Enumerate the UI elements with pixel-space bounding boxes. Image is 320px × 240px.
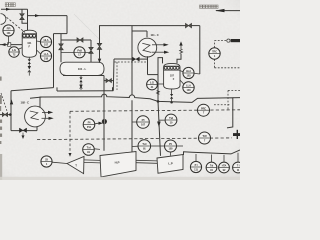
svg-text:H.P: H.P [115,160,120,164]
turbine drive triangle [67,156,84,173]
vessel 107-F shell [164,63,180,89]
wire: TxI stub [94,148,100,151]
instrument bubble TxI-91 [83,144,95,156]
junction dot on header x158 [157,100,160,103]
svg-text:TxI: TxI [210,165,214,168]
svg-text:HLA: HLA [186,70,191,73]
svg-text:TxI: TxI [86,146,90,150]
wire: jog y33.5 [54,33,68,35]
vessel 101-F drain arrow [28,64,30,66]
svg-text:107: 107 [141,122,146,126]
signal: dashed corridor top y110.8 [70,110,240,112]
wire: drop x104 [103,76,105,151]
signal arrow into instrument [95,122,99,125]
outlet arrow (to flare) [1,43,6,46]
flow arrow on y15.5 line [35,14,40,17]
vessel 101-F demister dots [22,34,36,38]
flow arrow up on x11 [10,99,13,104]
svg-text:192 - C: 192 - C [21,101,30,105]
wire: 192-C inlet bottom [36,126,38,130]
wire: exhaust manifold [192,150,240,154]
wire: SI link [52,162,67,163]
valve on x91 [89,47,93,53]
blower discharge arrow 1 [42,111,48,113]
wire: LLA-518 link [37,50,41,54]
instrument bubble TxI-91b [206,162,217,173]
instrument bubble TR-7 [199,132,211,144]
svg-text:105: 105 [168,146,173,150]
drum drain arrow [80,82,82,84]
svg-text:P I: P I [195,164,198,167]
vessel 107-F drain valve [170,94,173,99]
valve on side tap [2,113,7,117]
wire: row bubble link [151,145,165,147]
wire: manifold stub 3 [223,155,225,162]
signal: dashed diagonal to vessel [4,15,25,33]
flow arrow down x159 [157,122,161,128]
wire: drum bottom line y75.5 [63,75,104,77]
wire: drop x91 to drum [90,40,92,62]
scan edge artifacts [0,77,2,145]
wire: manifold stub 1 [195,154,197,162]
svg-text:111: 111 [194,167,198,171]
instrument bubble FR-101 [3,25,14,36]
wire: level line y91 [57,90,113,92]
signal: TRC to valve [214,41,216,48]
wire: long drop x53.5 [53,34,55,88]
shaft: HP to LP [136,159,157,162]
svg-text:100: 100 [186,88,191,92]
vessel 101-F drain valve [28,59,31,64]
orifice plate on outlet [8,43,11,47]
instrument bubble LLA-518 [40,50,51,61]
control valve actuator (top right) [227,39,230,42]
blower discharge arrow 2 [42,117,49,119]
control valve body (top right) [231,39,240,42]
wire: branch line y15.5 to x67 [28,15,68,17]
valve on y80.5 [106,79,111,83]
instrument bubble PRC-7 [198,104,210,116]
wire: stub to TxI row [132,145,138,147]
svg-text:LLA: LLA [186,85,191,88]
wire: drop x11 [10,91,12,131]
wire: elbow y74.5 [148,74,159,76]
wire: drop x132 from main line [131,26,133,31]
blower 192-C circle [25,106,46,127]
instrument bubble PdI-17 [74,47,85,58]
wire: stub to PI-107 [132,121,137,123]
instrument bubble HTA-92 [219,162,230,173]
wire: manifold stub 4 [237,153,239,162]
svg-text:PI: PI [88,121,91,125]
enclosure: box edge x113.5 [112,59,115,91]
signal: dashed y90.4 [228,89,240,91]
wire: long drop x132 [131,26,133,96]
svg-text:L.P: L.P [168,162,172,166]
vessel 101-F tag [27,41,32,49]
fold artifact [74,14,100,40]
valve with stem on y130.5 [19,128,26,133]
signal: dashed corridor bottom y139 [37,138,232,140]
wire: valve branch at x22 [22,9,28,23]
wire: LP exhaust riser [184,152,193,155]
instrument bubble TxI-row-A [138,140,151,153]
wire: riser x158 to vessel top [158,58,163,75]
wire: link x200 to HLA bubble [195,72,200,75]
instrument bubble TxI-10 [165,114,177,126]
enclosure: box top y59 [114,58,132,60]
valve on x61 [59,44,63,50]
instrument bubble PI-P11 [83,119,95,131]
wire: stub x57 [56,87,58,91]
instrument bubble PI-row-B [165,140,177,152]
turbine LP casing [157,155,183,174]
relief line with spring [177,54,181,64]
instrument bubble LG-72 [9,47,19,57]
wire: header tee to right edge [233,97,240,99]
svg-text:HTA: HTA [222,165,227,168]
valve marks on x158 [157,91,160,95]
label: to recovery (CJK) [200,5,219,8]
svg-text:101 - L: 101 - L [78,67,87,71]
instrument bubble SI-1 [41,156,52,167]
drum 101-L shell [60,62,104,75]
svg-text:PI: PI [142,118,145,122]
wire: FR stem [8,36,10,45]
drum drain valve [79,77,82,82]
compressor 111-C internals [142,43,151,52]
wire: feed y31 to 111-C [132,30,147,32]
arrow into drum end [98,59,101,63]
instrument bubble HLA-517 [40,36,51,47]
wire: HLA-517 link [37,40,41,43]
svg-text:PRC: PRC [201,107,206,110]
vessel 107-F drain to header [171,99,173,102]
wire: x158 down leg [157,75,159,102]
valve on y59 [132,57,139,61]
signal: dashed governor drop x70 [69,111,71,153]
svg-text:111 - C: 111 - C [151,33,159,37]
instrument bubble PI-111 [190,161,201,172]
signal: dashed x116 [116,62,118,90]
wire: side tap y114.5 [0,114,10,116]
export arrow [215,9,225,12]
vessel 107-F demister dots [164,66,180,70]
signal: TRC down [214,59,216,68]
inline instrument on x104 [102,119,107,124]
wire: sloped return line [11,88,54,91]
signal: dashed PRC to valve [214,104,230,106]
svg-text:HLA: HLA [44,39,49,42]
instrument bubble FI (edge) [1,14,6,25]
relief arrow up [179,41,182,45]
wire: LG link [18,48,22,50]
svg-text:TxI: TxI [142,142,146,146]
junction dot [9,113,12,116]
valve on main line [186,23,192,27]
wire: LLA-100 link [180,80,184,84]
svg-text:SI: SI [45,158,48,162]
turbine HP casing [100,152,136,178]
wire: drop x200 to HLA [199,26,201,74]
svg-text:P11: P11 [87,125,92,129]
wire: drop x99.5 to drum end [99,26,101,59]
wire: export line [216,10,240,12]
label: fuel gas (CJK) [5,3,15,7]
svg-text:LLA: LLA [44,53,49,56]
wire: main line y25.5 [99,25,186,27]
svg-text:101: 101 [6,31,11,35]
signal: dashed diagonal to side valve [1,93,7,111]
valve on x99.5 [97,43,101,49]
wire: y59 to 111-C drop [139,58,148,60]
wire: fuel gas inlet line [1,8,28,10]
wire: 192-C top riser [40,97,42,107]
svg-text:PdI: PdI [77,48,82,52]
wire: riser x27.5 into vessel 101-F [27,9,29,30]
wire: 111-C suction drop [147,56,149,74]
instrument bubble HLA-103 [183,67,194,78]
wire: drop x61 to drum [60,34,62,63]
flow arrow on fuel gas line [6,8,11,11]
wire: LG-41 link [157,83,163,85]
valve on branch x22 [20,14,24,20]
wire: TxI-10 stub [159,119,166,121]
svg-text:101: 101 [27,41,32,45]
svg-text:103: 103 [186,73,191,77]
wire: long header to right [30,94,233,128]
wire: bottom y130.5 [11,130,37,132]
compressor discharge arrow 1 [152,44,164,46]
valve line y80.5 [104,80,114,82]
wire: bypass top y40 [61,39,91,41]
shaft: triangle to HP [84,159,100,162]
instrument bubble PI-107 [137,116,150,129]
wire: manifold stub 2 [211,155,213,163]
instrument bubble LLA-100 [183,82,194,93]
svg-text:TxI: TxI [169,116,173,120]
valve on bypass y40 [77,38,83,42]
control valve body (bottom right) [233,133,240,136]
svg-text:TRC: TRC [212,51,217,54]
svg-text:PI: PI [169,142,172,146]
vessel 107-F tag [170,74,175,80]
instrument bubble TRC-1 [209,48,220,59]
instrument bubble TI-11 [233,162,244,173]
wire: header x158 continues down [158,101,161,155]
signal: dashed y62 [115,61,147,63]
svg-text:T I: T I [237,165,240,168]
wire: left outlet y44.5 [0,44,22,46]
vessel 101-F shell [22,30,36,57]
svg-text:517: 517 [44,42,49,46]
wire: box edge stub x112.5 [112,87,114,90]
compressor 111-C circle [138,38,157,57]
compressor discharge arrow 2 [152,51,165,53]
wire: main line after valve [192,25,200,27]
instrument bubble LG-41 [147,79,158,90]
wire: drop x67 [66,16,68,34]
svg-text:518: 518 [44,56,49,60]
wire: HLA-103 link [180,71,183,72]
blower 192-C internals [30,111,39,120]
signal: dashed x228 [227,90,229,109]
wire: PdI tap line [61,51,91,53]
